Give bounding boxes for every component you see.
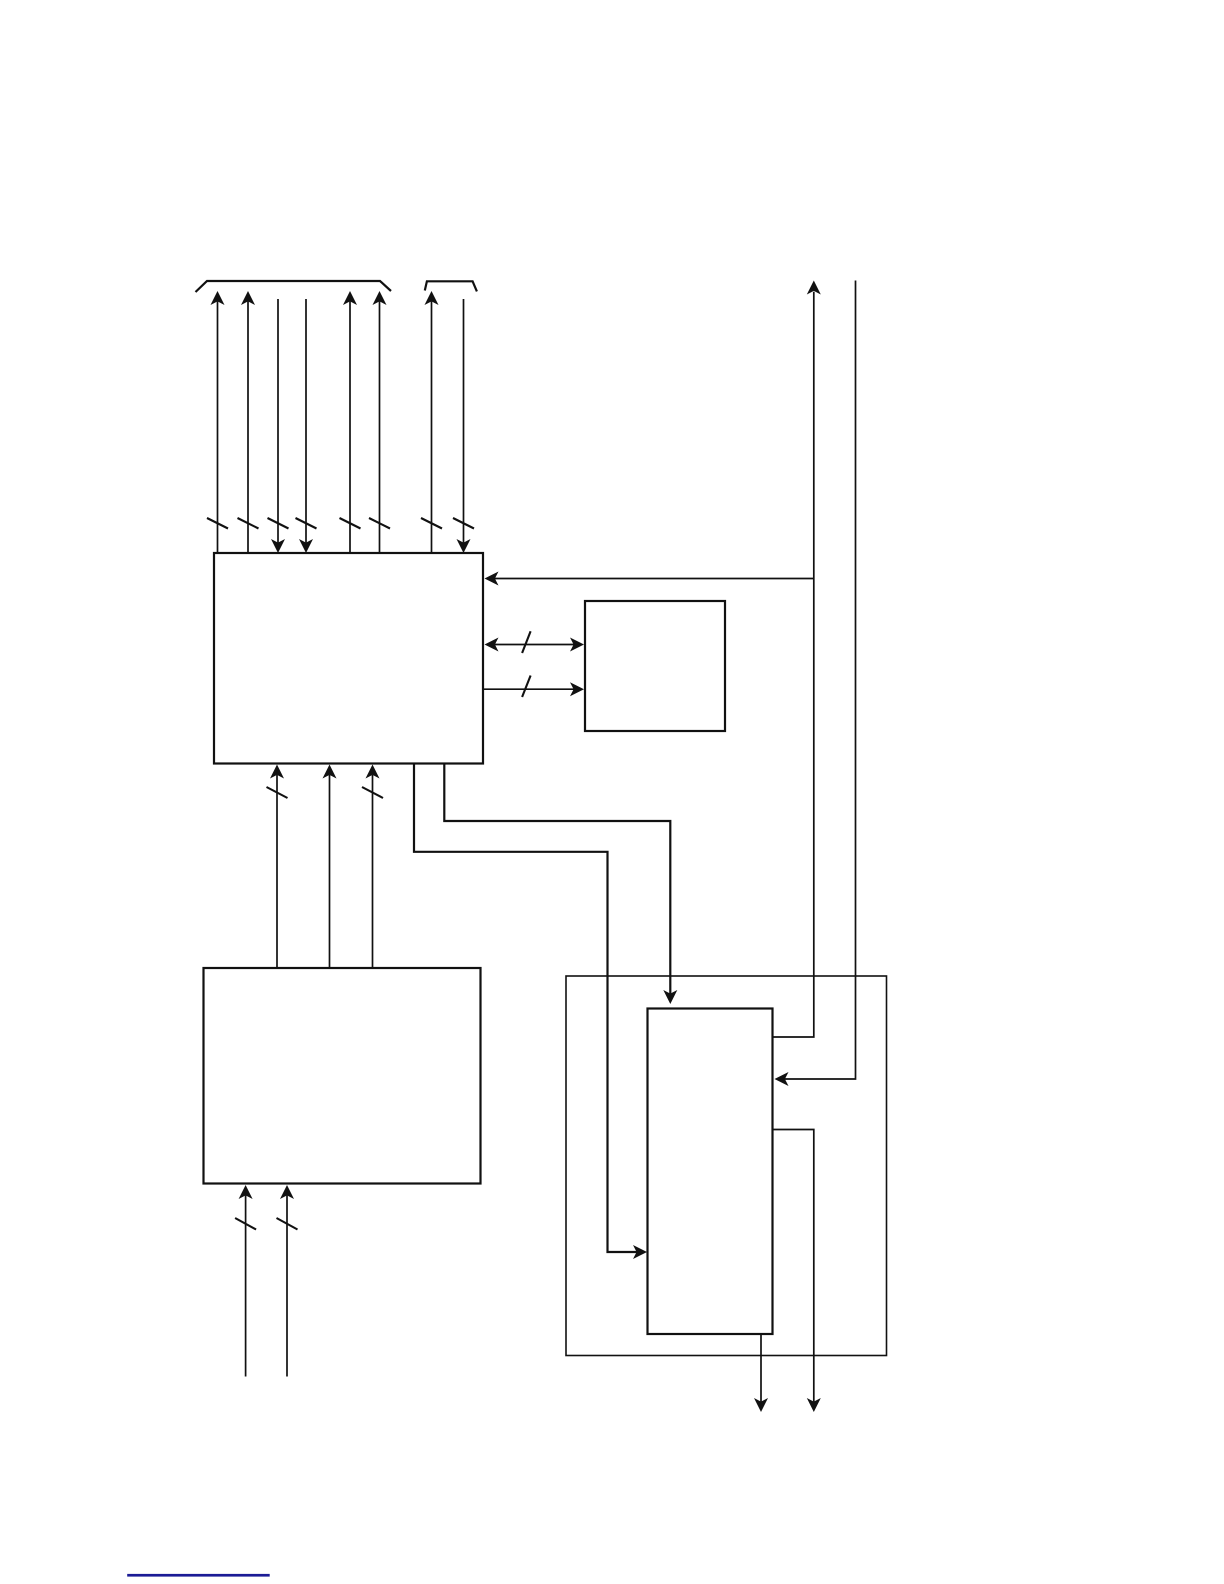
slash on bus line 6 [369,518,390,529]
slash on bus line 8 [453,518,474,529]
bus line 2 out of block B1 top (up arrow) [247,302,249,554]
bus line 6 out of block B1 top (up arrow) [379,302,381,554]
slash on bus line 2 [238,518,259,529]
slash on bus line 1 [207,518,228,529]
bus line 4 into block B1 top (down arrow) [305,299,307,543]
bus line 8 into block B1 top (down arrow) [463,299,465,543]
slash on bus line 4 [296,518,317,529]
wire O1: B5 right side down, out of B4 bottom (down arrow) [772,1130,814,1402]
slash on B3-B1 arrow 3 [362,787,383,798]
wire V2: from top of page down into B5 right side (left arrow) [785,281,856,1080]
wire W1: B1 bottom to B5 left side (right arrow) [414,764,637,1253]
bus arrow 3 from B3 up into B1 bottom [372,775,374,968]
bus line 7 out of block B1 top (up arrow) [431,302,433,554]
slash on B3-B1 arrow 1 [267,787,288,798]
bus input arrow 2 into B3 bottom [286,1196,288,1377]
bus arrow 1 from B3 up into B1 bottom [276,775,278,968]
bus input arrow 1 into B3 bottom [245,1196,247,1377]
bus arrow 2 from B3 up into B1 bottom [329,775,331,968]
bus line 3 into block B1 top (down arrow) [277,299,279,543]
bus bracket brace over left bus group [196,281,392,292]
bus bracket brace over right bus group [425,281,477,291]
block B4 (outer container box, lower right) [566,976,887,1356]
blue underline mark bottom left [127,1574,270,1577]
slash on B3 input 1 [235,1218,256,1230]
block B3 (lower left large box) [204,968,481,1184]
block B1 (top left large box) [214,553,483,764]
wire W2: B1 bottom to B5 top (down arrow) [444,764,670,994]
slash on bus line 3 [268,518,289,529]
slash on bus line 5 [340,518,361,529]
wire O2: B5 bottom down through B4 bottom (down arrow) [760,1334,762,1402]
bidirectional bus B1 - B2 [495,644,574,646]
block B2 (small box right of B1) [585,601,725,731]
slash on bidirectional bus [522,631,531,653]
bus B1 to B2 (right arrow) [484,688,575,690]
bus line 1 out of block B1 top (up arrow) [217,302,219,554]
slash on bus line 7 [421,518,442,529]
slash on B1-B2 bus [522,676,531,698]
slash on B3 input 2 [277,1218,298,1230]
block B5 (inner box inside B4) [648,1009,773,1335]
wire V1: from B5 right side up to top of page (up arrow), branch feeds B1 [772,292,814,1037]
wire from node V1 into B1 right side (left arrow) [495,578,814,580]
bus line 5 out of block B1 top (up arrow) [349,302,351,554]
